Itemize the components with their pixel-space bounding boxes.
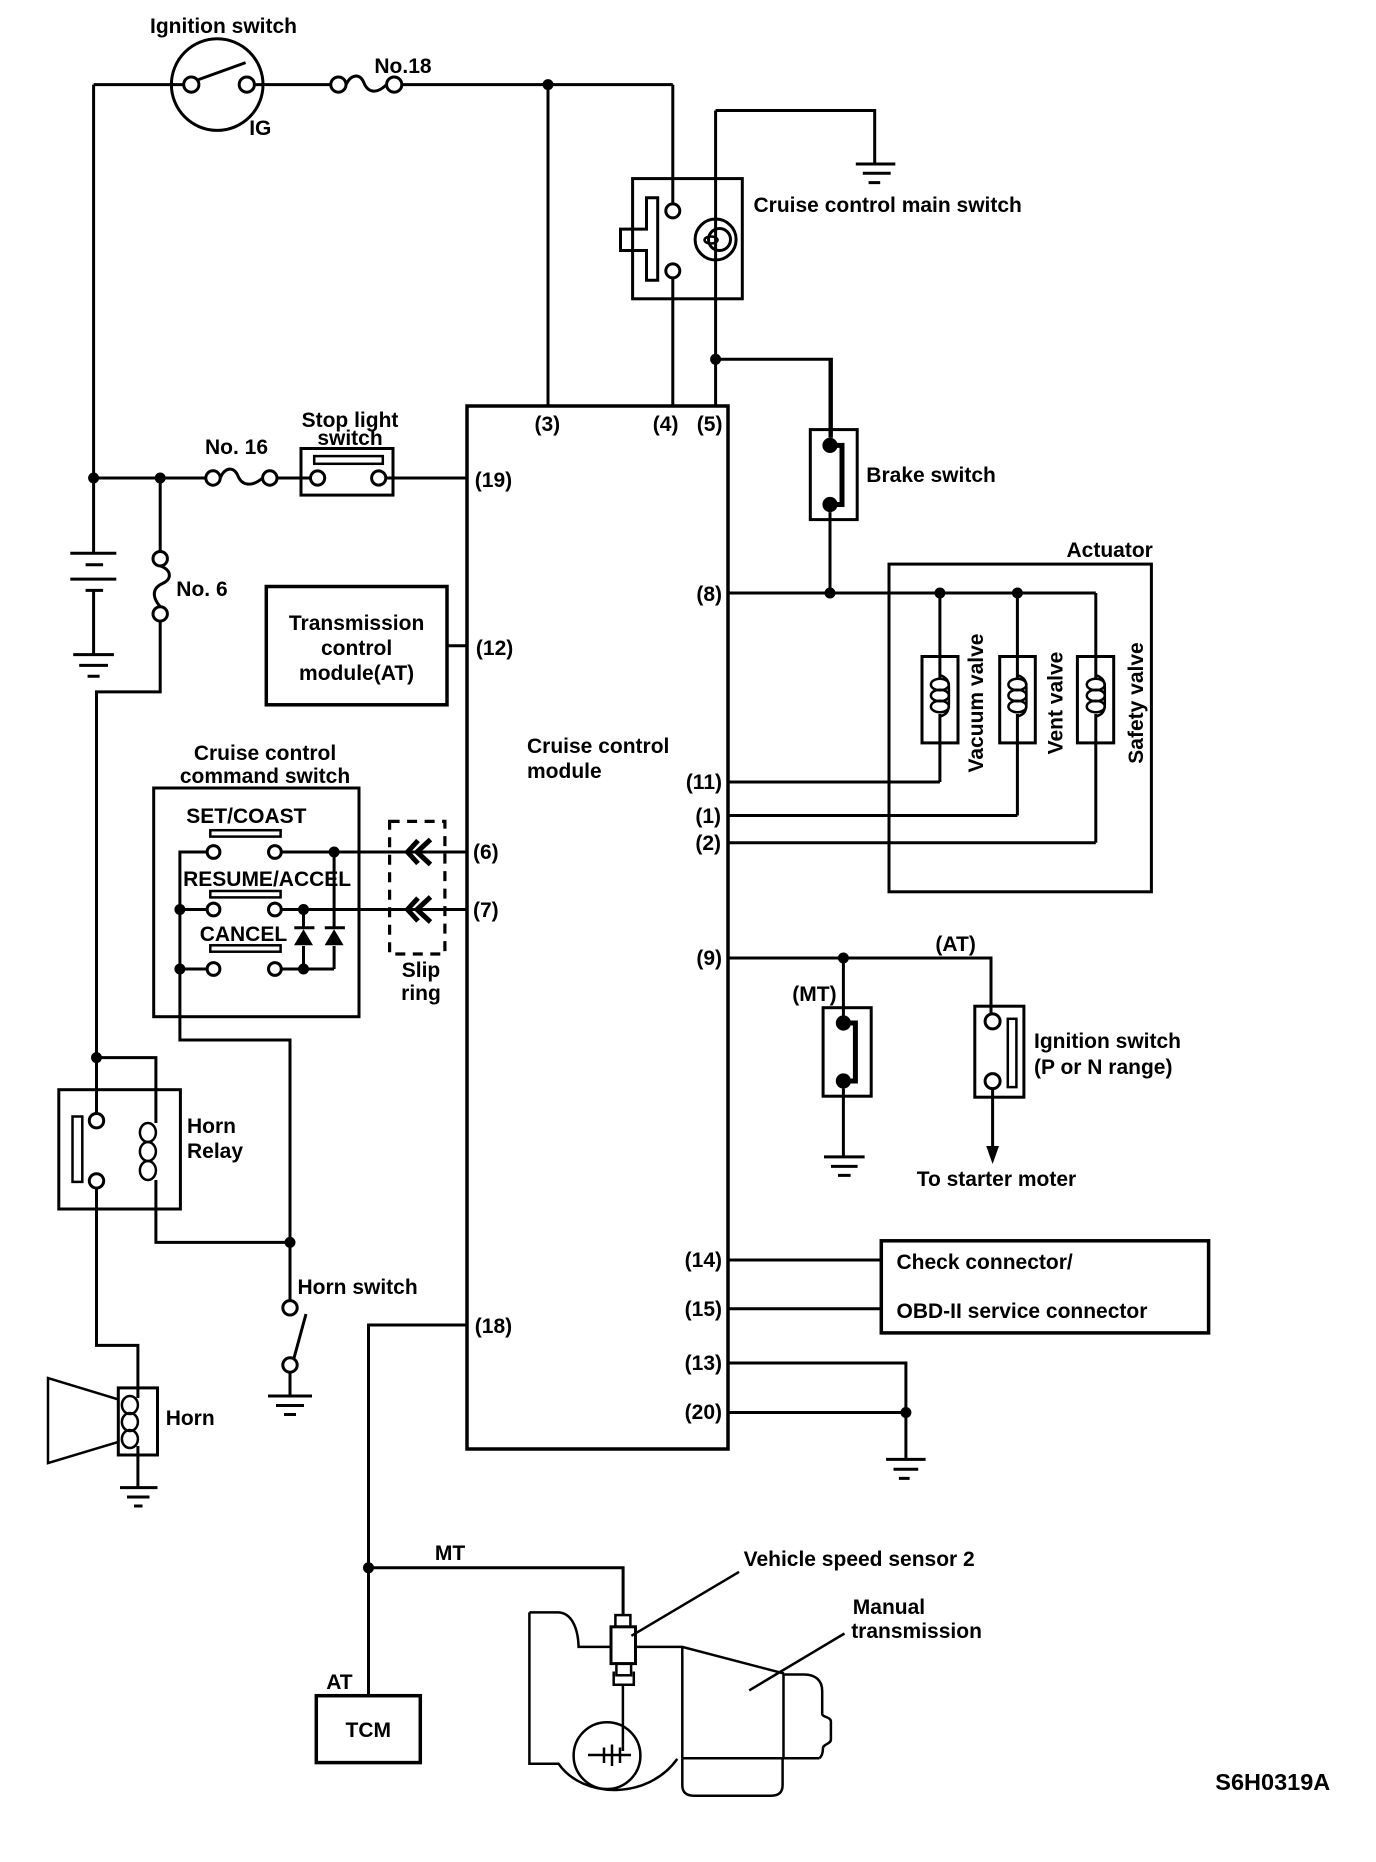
svg-text:CANCEL: CANCEL [200,923,288,946]
svg-text:Manual: Manual [853,1596,925,1619]
svg-text:Vacuum valve: Vacuum valve [965,634,988,773]
svg-text:Cruise control main switch: Cruise control main switch [754,194,1022,217]
svg-text:SET/COAST: SET/COAST [186,805,306,828]
svg-text:command switch: command switch [180,765,350,788]
svg-text:(5): (5) [697,413,723,436]
svg-text:ring: ring [401,982,441,1005]
svg-text:(1): (1) [695,805,721,828]
svg-text:module(AT): module(AT) [299,662,414,685]
svg-text:(AT): (AT) [935,933,975,956]
svg-text:(2): (2) [695,832,721,855]
svg-text:Brake switch: Brake switch [866,464,996,487]
svg-text:Relay: Relay [187,1140,243,1163]
svg-text:Cruise control: Cruise control [194,742,336,765]
svg-text:(14): (14) [685,1249,722,1272]
svg-text:Ignition switch: Ignition switch [1034,1030,1181,1053]
svg-text:Vent valve: Vent valve [1045,652,1068,755]
svg-text:TCM: TCM [346,1719,392,1742]
svg-text:Actuator: Actuator [1067,539,1153,562]
svg-text:(20): (20) [685,1401,722,1424]
svg-text:AT: AT [326,1671,353,1694]
svg-text:OBD-II service connector: OBD-II service connector [897,1300,1148,1323]
svg-text:Ignition switch: Ignition switch [150,15,297,38]
svg-text:(4): (4) [653,413,679,436]
svg-text:S6H0319A: S6H0319A [1215,1769,1330,1795]
svg-text:(13): (13) [685,1352,722,1375]
svg-text:transmission: transmission [851,1620,982,1643]
svg-text:(MT): (MT) [792,983,836,1006]
svg-text:Slip: Slip [402,959,441,982]
svg-text:IG: IG [249,117,271,140]
svg-text:(3): (3) [535,413,561,436]
svg-text:No. 16: No. 16 [205,436,268,459]
svg-text:Horn: Horn [166,1407,215,1430]
svg-text:(7): (7) [473,899,499,922]
svg-text:(9): (9) [696,947,722,970]
svg-text:(12): (12) [476,637,513,660]
svg-text:RESUME/ACCEL: RESUME/ACCEL [183,868,351,891]
svg-text:switch: switch [317,427,382,450]
svg-text:control: control [321,637,392,660]
svg-text:No. 6: No. 6 [176,578,227,601]
svg-text:(11): (11) [686,771,722,794]
svg-text:To starter moter: To starter moter [917,1168,1076,1191]
svg-text:Safety valve: Safety valve [1125,642,1148,763]
svg-text:(6): (6) [473,841,499,864]
svg-text:MT: MT [435,1542,465,1565]
svg-text:Vehicle speed sensor 2: Vehicle speed sensor 2 [744,1548,975,1571]
svg-text:(8): (8) [696,583,722,606]
svg-text:Horn switch: Horn switch [298,1276,418,1299]
svg-text:Check connector/: Check connector/ [897,1251,1073,1274]
svg-text:(P or N range): (P or N range) [1034,1056,1172,1079]
svg-text:No.18: No.18 [374,55,432,78]
svg-text:(19): (19) [475,469,512,492]
svg-text:Transmission: Transmission [289,612,424,635]
svg-text:(15): (15) [685,1298,722,1321]
svg-text:Horn: Horn [187,1115,236,1138]
svg-text:(18): (18) [475,1315,512,1338]
svg-text:module: module [527,760,602,783]
svg-text:Cruise control: Cruise control [527,735,669,758]
